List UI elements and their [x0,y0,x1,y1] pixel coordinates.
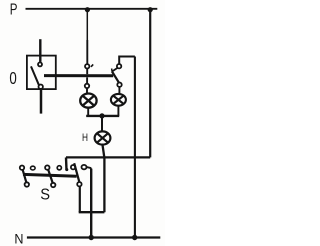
wire through left contact (below bar) [86,77,88,83]
switch S pole3 top terminal [71,165,75,169]
wire lamp H bottom down [103,145,105,212]
wire bottom joining bar [79,211,105,213]
wire right contact to lamp EL2 [118,87,120,94]
contact right top terminal [117,64,121,68]
switch Q blade [31,66,39,84]
lamp H [95,131,111,144]
svg-text:P: P [10,1,18,18]
wire horizontal return to right bus [66,156,150,158]
wire through left contact (above bar) [86,69,88,75]
switch S pole2 blade [48,170,52,183]
switch S pole3 blade [74,163,79,181]
wire right contact top to right bus [119,57,135,64]
switch S link bar [23,174,77,176]
contact left bottom terminal [85,84,89,88]
wire to lamp H [101,116,103,131]
switch Q box [27,56,56,90]
switch Q top terminal [38,62,42,66]
switch S pole3 bottom terminal [77,182,81,186]
junction N at x=134.7 [132,235,137,240]
junction lamps to H [99,113,104,118]
svg-text:H: H [82,132,88,144]
wire pole3 bottom down [79,187,81,213]
contact right bottom terminal [117,83,121,87]
mechanical link bar (thick horizontal) [44,74,113,77]
wire P bus [26,8,158,10]
svg-text:0: 0 [9,68,16,88]
wire right vertical bus to N [134,57,136,238]
switch S fixed contact c1 [31,166,36,170]
wire center down to N [90,169,92,238]
switch S terminal d [82,165,87,169]
lamp EL1 [80,94,96,108]
wire right bus from P down [149,10,151,158]
lamp EL2 [111,94,126,106]
wire Q bottom stub [40,89,43,114]
contact left top terminal [85,64,89,68]
junction N at x=91 [89,235,94,240]
wire lamp EL2 bottom [117,106,119,116]
switch S pole1 top terminal [20,166,24,170]
switch Q bottom terminal [39,85,43,89]
junction P at x=87 [85,7,90,12]
switch S pole2 bottom terminal [51,183,55,187]
wire hook from terminal d [87,167,92,169]
wire left contact to lamp EL1 [86,88,88,93]
wire S feed corner down [65,157,68,170]
wire N bus [27,236,160,238]
wire P down to left contact [86,10,88,40]
switch S pole1 blade [23,170,26,182]
switch S pole1 bottom terminal [25,182,29,186]
wire lamp EL1 bottom [87,108,89,116]
switch Q feed stub [39,39,41,62]
wire joining lamps [86,115,119,117]
contact right blade [112,72,119,83]
svg-text:S: S [40,187,50,204]
contact left blade tick [91,64,93,66]
blob at feed end [65,168,68,171]
switch S fixed contact c2 [57,166,61,170]
svg-text:N: N [14,231,23,246]
junction P at x=150 [148,7,153,12]
switch S pole2 top terminal [45,165,49,169]
